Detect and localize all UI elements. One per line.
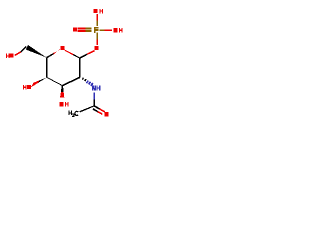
bond P-OH right (olive half near P) — [99, 29, 104, 31]
hashed wedge C2-N stroke 3 (blue) — [86, 80, 89, 83]
label subscript 3 of H3C — [72, 114, 74, 117]
atom O of C3 OH (red square) — [59, 102, 63, 106]
bond P-O bridge (olive half near P) — [96, 33, 98, 40]
hashed wedge C2-N stroke 2 (black) — [84, 79, 87, 82]
bond C6-O of HO (black half near C6) — [20, 46, 26, 53]
label H of NH — [97, 85, 101, 90]
bond C1-C2 — [79, 58, 81, 77]
bond C6-O of HO (red half near O) — [14, 51, 21, 56]
double bond P=O lower line red half — [78, 30, 86, 32]
label H of right P-OH — [119, 28, 123, 33]
bond C(=O)-CH3 — [79, 105, 94, 112]
hashed wedge C2-N stroke 5 (blue) — [90, 83, 93, 87]
atom P glyph: top bar — [96, 27, 99, 29]
atom O of C4 HO (red square) — [27, 85, 31, 89]
bond ring O-C5 (black half near C5) — [46, 53, 54, 58]
bond bridge O-C1 (black half near C1) — [79, 54, 87, 59]
wedge bond C5-C6 (bold, up-left) — [26, 45, 47, 58]
double bond C=O second line red half — [97, 111, 103, 115]
wedge bond C4-O (bold, to HO lower-left): black half near C4 — [38, 77, 47, 83]
bond P-OH top (olive half near P) — [96, 20, 98, 26]
double bond C=O main line black half — [94, 105, 100, 110]
double bond P=O lower line olive half — [86, 30, 92, 32]
double bond P=O upper line red half — [78, 28, 86, 30]
wedge bond C3-O red half near O — [60, 92, 64, 98]
double bond P=O upper line olive half — [86, 28, 92, 30]
label C of H3C — [75, 111, 78, 115]
atom O of right P-OH (red square) — [113, 28, 117, 32]
atom O of top P-OH (red square) — [94, 9, 98, 13]
bond N-C(=O) black half near C — [94, 99, 96, 106]
bond C4-C5 — [46, 57, 48, 77]
hashed wedge C2-N stroke 4 (blue) — [88, 81, 91, 85]
atom O bridge to P (red square) — [95, 46, 99, 50]
label H of H3C — [68, 111, 72, 116]
bond N-C(=O) blue half near N — [94, 92, 96, 99]
label H of top P-OH — [99, 9, 103, 14]
bond C3-C4 — [47, 77, 63, 87]
double bond C=O second line black half — [93, 108, 99, 112]
bond P-O bridge (red half near O) — [96, 40, 98, 46]
label N of NH — [92, 85, 96, 90]
double bond C=O main line red half — [99, 108, 105, 112]
bond bridge O-C1 (red half near O) — [87, 50, 95, 55]
atom O of acetyl C=O (red square) — [104, 112, 108, 116]
atom O of C6 HO (red square) — [10, 54, 14, 58]
bond C2-C3 — [62, 77, 80, 87]
label H of C4 HO — [23, 85, 27, 90]
bond ring O-C1 (red half near O) — [64, 49, 73, 55]
hashed wedge C2-N stroke 1 (black) — [82, 77, 84, 80]
atom O ring (red square) — [60, 46, 64, 50]
wedge bond C4-O red half near O — [31, 80, 40, 87]
atom P glyph: stem — [94, 27, 96, 33]
atom O double bonded to P (red square) — [73, 27, 77, 31]
bond ring O-C1 (black half near C1) — [73, 54, 80, 59]
bond P-OH right (red half near O) — [105, 29, 112, 31]
bond ring O-C5 (red half near O) — [53, 49, 60, 55]
label H of C3 OH — [65, 102, 69, 107]
bond P-OH top (red half near O) — [96, 14, 98, 20]
atom P glyph: mid bar — [96, 29, 99, 31]
wedge bond C3-O (bold, down): black half near C3 — [61, 86, 64, 92]
label H of C6 HO — [6, 54, 10, 59]
